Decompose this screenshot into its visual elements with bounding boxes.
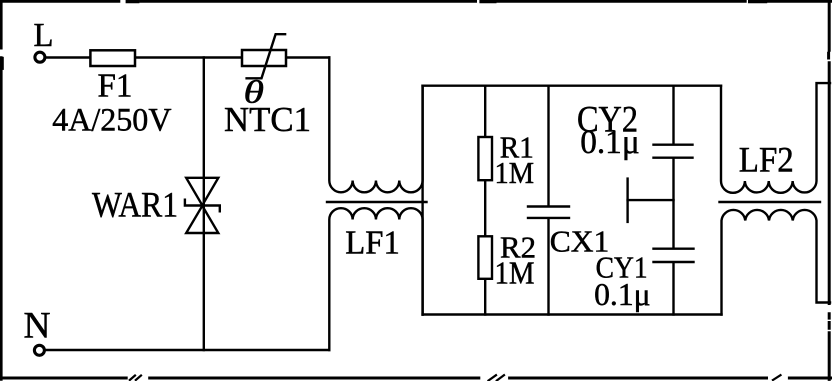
svg-text:LF1: LF1 <box>345 225 400 262</box>
resistor R1 branch wire top <box>484 86 486 136</box>
svg-text:NTC1: NTC1 <box>224 100 311 139</box>
wire F1 to NTC1 <box>136 56 241 58</box>
resistor R2 branch wire bottom <box>484 280 486 315</box>
svg-text:L: L <box>34 17 54 54</box>
choke LF2 core <box>720 201 821 203</box>
border frame left <box>1 0 2 379</box>
border frame right <box>827 0 831 379</box>
choke LF2 bottom winding <box>722 210 831 315</box>
wire L to F1 <box>45 56 89 58</box>
capacitor CX1 branch wire top <box>547 86 549 206</box>
wire between CY2 and CY1 <box>672 158 674 248</box>
fuse F1 <box>90 50 135 66</box>
earth tap bar <box>626 179 628 222</box>
thermistor NTC1 <box>242 50 286 66</box>
resistor R2 <box>478 236 492 278</box>
capacitor CX1 branch wire bottom <box>547 218 549 314</box>
resistor R1 <box>478 137 492 180</box>
thermistor NTC1 hook line <box>247 34 286 78</box>
earth tap wire <box>628 199 674 201</box>
choke LF1 top winding <box>329 58 422 193</box>
wire NTC1 to LF1 <box>287 56 330 58</box>
wire junction branch to varistor <box>203 58 205 351</box>
svg-text:0.1μ: 0.1μ <box>594 276 651 312</box>
choke LF2 top winding <box>721 83 830 193</box>
svg-text:4A/250V: 4A/250V <box>52 102 172 138</box>
choke LF1 core <box>327 201 427 203</box>
varistor WAR1 <box>185 178 220 233</box>
border frame bottom <box>0 375 832 380</box>
svg-text:F1: F1 <box>98 68 133 105</box>
svg-text:θ: θ <box>244 74 265 110</box>
wire N line <box>45 349 330 351</box>
capacitor CY1 plates <box>654 249 694 262</box>
capacitor CX1 plates <box>528 207 569 218</box>
svg-text:0.1μ: 0.1μ <box>580 124 640 161</box>
wire between R1 and R2 <box>484 181 486 235</box>
svg-text:1M: 1M <box>495 155 535 190</box>
terminal L <box>35 52 45 62</box>
capacitor CY2 branch wire top <box>672 86 674 144</box>
border frame top <box>0 0 832 3</box>
svg-text:1M: 1M <box>495 255 535 291</box>
capacitor CY2 plates <box>654 145 693 158</box>
capacitor CY1 branch wire bottom <box>672 263 674 315</box>
terminal N <box>34 345 44 355</box>
svg-text:N: N <box>24 305 51 346</box>
svg-text:LF2: LF2 <box>739 140 794 180</box>
svg-text:WAR1: WAR1 <box>92 185 178 225</box>
choke LF1 bottom winding <box>329 208 422 350</box>
wire top rail <box>423 84 721 86</box>
wire left rail <box>421 86 423 315</box>
wire bottom rail <box>423 313 722 315</box>
